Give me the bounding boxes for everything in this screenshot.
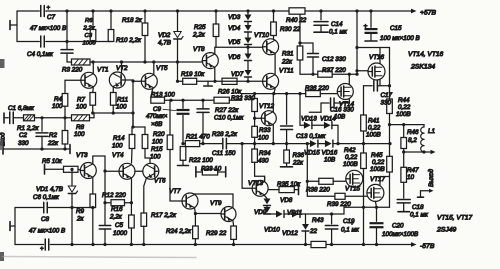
label VD9: [254, 209, 267, 216]
svg-text:+57В: +57В: [420, 10, 437, 17]
label VT1: [97, 67, 109, 74]
svg-text:×6В: ×6В: [151, 121, 162, 128]
diode VD7: [245, 61, 252, 82]
svg-text:R33: R33: [259, 127, 271, 134]
capacitor C14: [314, 11, 328, 32]
transistor VT17 mosfet: [367, 184, 384, 201]
wire VT12 collector: [272, 94, 274, 112]
label C15: [380, 25, 420, 42]
label R27: [215, 107, 239, 114]
svg-text:R19 10к: R19 10к: [181, 71, 205, 78]
label VD11: [287, 210, 302, 217]
label C1: [8, 105, 35, 112]
label VT4: [112, 152, 124, 159]
resistor R35: [268, 185, 298, 195]
label R34: [258, 150, 271, 165]
capacitor C20 electrolytic: [370, 207, 384, 244]
label R13: [151, 92, 175, 99]
svg-text:0,22: 0,22: [345, 154, 358, 161]
svg-text:VD9: VD9: [254, 209, 267, 216]
capacitor C1: [10, 112, 14, 124]
label R9: [76, 208, 85, 223]
svg-text:VD4: VD4: [228, 25, 241, 32]
edge artifact bottom smudge: [2, 257, 196, 258]
label C20 polarity: [350, 220, 354, 227]
svg-text:100: 100: [150, 154, 161, 161]
svg-text:C18: C18: [412, 204, 424, 211]
svg-text:VD7: VD7: [231, 71, 244, 78]
capacitor C6 cap: [44, 202, 48, 213]
svg-text:VT1: VT1: [97, 67, 109, 74]
label R41: [366, 118, 381, 139]
svg-text:C15: C15: [390, 25, 402, 32]
wire y74 to VT16 column: [332, 73, 358, 76]
wire VT17 source: [375, 201, 378, 209]
svg-text:R31: R31: [282, 51, 294, 58]
wire VT10-VT11 link: [274, 54, 276, 74]
svg-text:C7: C7: [47, 14, 56, 21]
svg-text:0,1 мк: 0,1 мк: [341, 227, 360, 234]
svg-text:R20: R20: [153, 131, 165, 138]
svg-text:R45: R45: [371, 152, 383, 159]
svg-text:100В: 100В: [370, 166, 385, 173]
svg-text:C10 0,1мк: C10 0,1мк: [214, 115, 244, 122]
resistor R26: [222, 78, 237, 84]
resistor R9: [90, 194, 96, 245]
terminal output lower: [418, 189, 434, 197]
capacitor C8: [45, 239, 49, 250]
resistor R13: [151, 97, 165, 103]
svg-text:22: 22: [309, 228, 318, 235]
transistor VT8: [202, 53, 218, 69]
svg-text:R27 22к: R27 22к: [215, 107, 239, 114]
wire VT-collector bus y62: [90, 60, 202, 63]
svg-text:VT15, VT17: VT15, VT17: [437, 215, 473, 222]
resistor R23: [196, 167, 226, 177]
wire VT2 collector: [121, 62, 123, 73]
svg-text:470мк×: 470мк×: [146, 113, 168, 120]
wire R41 to bus: [363, 131, 365, 153]
terminal input left: [4, 113, 8, 123]
label R37: [322, 67, 346, 74]
svg-text:C16 330: C16 330: [330, 107, 354, 114]
svg-text:C11 150: C11 150: [212, 150, 236, 157]
svg-text:C2: C2: [19, 132, 28, 139]
label output Vyhod: [429, 168, 435, 187]
wire input node: [35, 116, 72, 119]
resistor R42: [361, 153, 367, 169]
resistor R15: [142, 127, 150, 163]
svg-text:+: +: [40, 247, 44, 253]
label C6: [33, 194, 60, 201]
resistor R47: [401, 150, 407, 182]
wire VT14 drain: [348, 74, 350, 84]
resistor R6: [90, 11, 96, 42]
terminal input top-left: [10, 21, 17, 30]
wire base bridge VT4-VT6: [135, 170, 143, 172]
svg-text:C20: C20: [392, 223, 404, 230]
label VT16: [369, 54, 385, 61]
transistor VT16 mosfet: [368, 63, 385, 80]
diode VD11: [292, 211, 306, 218]
svg-text:VD3: VD3: [228, 14, 241, 21]
label R10: [116, 37, 142, 44]
resistor R44: [387, 99, 393, 114]
svg-text:VT15: VT15: [345, 186, 361, 193]
transistor VT3: [80, 163, 96, 179]
svg-text:R18 2к: R18 2к: [122, 17, 143, 24]
svg-text:R11: R11: [117, 97, 128, 104]
resistor R17: [141, 213, 147, 245]
svg-text:+: +: [350, 220, 354, 227]
label R7: [76, 97, 87, 111]
diode VD1 zener: [68, 169, 77, 244]
wire VT10 collector: [273, 36, 275, 40]
wire y213 base: [195, 213, 221, 215]
wire R27 to R32: [229, 92, 305, 100]
svg-text:R8: R8: [76, 124, 85, 131]
svg-text:R21 470: R21 470: [186, 134, 210, 141]
wire VT7 emitter: [194, 208, 197, 215]
diode VD12: [302, 214, 309, 245]
svg-text:100 мк×100 В: 100 мк×100 В: [380, 35, 420, 42]
label C14: [329, 21, 348, 36]
resistor R39: [307, 193, 367, 199]
label R40: [286, 17, 307, 24]
svg-text:R36 220: R36 220: [305, 85, 329, 92]
svg-text:R7: R7: [77, 97, 86, 104]
label L1: [428, 128, 435, 135]
wire x389 column lower: [364, 172, 390, 207]
wire R14 R15 feeds: [131, 113, 145, 129]
label VT6: [154, 178, 166, 185]
label C17: [381, 92, 393, 107]
svg-text:VT5: VT5: [156, 65, 168, 72]
terminal bar right end y149: [69, 145, 71, 154]
wire output bus left: [181, 142, 204, 145]
svg-text:VD12: VD12: [282, 230, 298, 237]
label VD6: [228, 54, 241, 61]
label VT7: [169, 188, 181, 195]
label R18: [122, 17, 143, 24]
label C5: [113, 222, 128, 237]
svg-text:C12 330: C12 330: [322, 56, 346, 63]
transistor VT12: [253, 111, 276, 126]
label R43: [309, 217, 324, 235]
inductor L1: [421, 125, 424, 152]
label VD14: [320, 116, 336, 123]
label C2: [18, 132, 29, 147]
svg-text:0,22: 0,22: [368, 125, 381, 132]
resistor R43: [311, 241, 326, 247]
svg-text:VT16: VT16: [369, 54, 385, 61]
svg-text:R32 330: R32 330: [231, 95, 255, 102]
svg-text:100: 100: [76, 104, 87, 111]
transistor VT5: [133, 73, 157, 89]
capacitor C15 electrolytic: [365, 11, 378, 41]
label VT14: [339, 101, 355, 108]
capacitor C18: [397, 182, 410, 211]
resistor R45: [387, 156, 393, 172]
svg-text:Выход: Выход: [429, 168, 435, 187]
diode VD6: [245, 47, 252, 60]
label VT11: [279, 68, 294, 75]
svg-text:C8: C8: [41, 216, 50, 223]
label C19: [341, 218, 360, 234]
svg-text:8,2: 8,2: [408, 137, 417, 144]
wire VT16 gate box: [357, 48, 390, 71]
capacitor C3: [61, 42, 73, 63]
wire VT8 collector: [214, 47, 216, 53]
svg-text:R25: R25: [194, 24, 206, 31]
capacitor C9 electrolytic: [177, 100, 190, 143]
svg-text:22к: 22к: [292, 160, 304, 167]
diode VD10: [276, 211, 292, 218]
wire VT8 emitter: [214, 68, 216, 82]
svg-text:100: 100: [116, 104, 127, 111]
wire VT6 emitter: [144, 178, 147, 213]
svg-text:R6: R6: [85, 18, 93, 24]
label R4: [52, 96, 63, 110]
label R36 22k: [292, 152, 305, 167]
wire x357 column: [355, 11, 358, 74]
label R32: [231, 95, 255, 102]
resistor R7: [90, 88, 96, 113]
capacitor C2: [36, 118, 48, 149]
svg-text:R41: R41: [368, 118, 380, 125]
svg-text:+: +: [364, 23, 368, 30]
svg-text:VT10: VT10: [254, 32, 270, 39]
wire -57V bottom rail: [15, 242, 417, 247]
wire ground bus y149: [3, 147, 70, 150]
wire output bus mid: [241, 142, 310, 145]
label R11: [116, 97, 128, 111]
svg-text:VT4: VT4: [112, 152, 124, 159]
label R6: [83, 18, 95, 32]
wire +57V top rail: [17, 9, 417, 14]
svg-text:R14: R14: [113, 135, 125, 142]
svg-text:100: 100: [258, 135, 269, 142]
label VT2: [116, 65, 128, 72]
resistor R34: [252, 137, 258, 162]
wire VT3 emitter: [92, 178, 94, 194]
svg-text:100мк×100В: 100мк×100В: [382, 231, 418, 238]
svg-text:100В: 100В: [343, 161, 358, 168]
label input Vhod: [1, 132, 7, 146]
svg-text:R4: R4: [54, 96, 63, 103]
label R25: [192, 24, 206, 39]
svg-text:0,22: 0,22: [398, 104, 411, 111]
wire VT4 base: [105, 170, 119, 172]
label R31: [281, 51, 294, 66]
label VT3: [76, 152, 88, 159]
svg-text:R42: R42: [344, 147, 356, 154]
label R26: [218, 89, 242, 96]
diode VD5: [245, 32, 252, 47]
resistor R24: [193, 214, 199, 245]
wire y124 output top: [390, 123, 425, 126]
label R1: [17, 125, 40, 132]
svg-text:2,2к: 2,2к: [192, 32, 206, 39]
svg-text:100: 100: [152, 139, 163, 146]
svg-text:C5: C5: [115, 222, 124, 229]
svg-text:C4 0,1мк: C4 0,1мк: [27, 51, 54, 58]
wire VT5 emitter: [151, 89, 153, 97]
terminal left mid: [2, 144, 4, 154]
label R36b: [305, 85, 329, 92]
label VT17: [370, 176, 386, 183]
wire y81 bus: [197, 80, 263, 83]
wire y100 bus: [165, 99, 215, 102]
capacitor C13: [281, 94, 293, 144]
svg-text:L1: L1: [428, 128, 435, 135]
svg-text:R3 220: R3 220: [62, 67, 83, 74]
terminal stub below R19: [204, 81, 212, 86]
label C11: [212, 150, 236, 157]
wire VT11 emitter: [274, 89, 275, 94]
label R35: [277, 181, 301, 188]
svg-text:0,22: 0,22: [372, 159, 385, 166]
svg-text:C13 0,1мк: C13 0,1мк: [296, 133, 326, 140]
svg-text:VT3: VT3: [76, 152, 88, 159]
label VD1: [36, 186, 63, 193]
label C13: [296, 133, 326, 140]
resistor R36 22k: [281, 144, 293, 167]
svg-text:R36: R36: [293, 152, 305, 159]
node top rail junctions: [65, 9, 372, 12]
label VD8: [280, 197, 293, 204]
svg-text:R16: R16: [111, 206, 123, 213]
svg-text:VT13: VT13: [248, 180, 264, 187]
label R23: [201, 166, 222, 173]
label R5: [42, 158, 63, 165]
wire y214 to C19: [306, 207, 364, 215]
wire output arrow: [404, 150, 436, 154]
label C9: [146, 106, 176, 128]
label R19: [181, 71, 205, 78]
label VD7: [231, 71, 244, 78]
svg-text:330: 330: [18, 140, 29, 147]
svg-text:VD2: VD2: [158, 32, 171, 39]
resistor R38: [307, 178, 346, 184]
label R3: [62, 67, 83, 74]
resistor R33: [252, 112, 258, 138]
wire VT13 emitter: [265, 196, 267, 199]
label R24: [166, 228, 192, 235]
diode VD4: [245, 22, 252, 33]
svg-text:1000: 1000: [113, 230, 128, 237]
wire x389 column upper: [389, 48, 391, 100]
resistor R41: [361, 86, 367, 131]
wire y47 bus: [216, 46, 263, 49]
svg-text:430: 430: [258, 158, 269, 165]
label VD3: [228, 14, 241, 21]
capacitor C5: [99, 225, 111, 229]
capacitor C16: [309, 98, 349, 112]
svg-text:C3: C3: [85, 33, 93, 39]
label VD16: [322, 150, 338, 164]
label R28: [212, 131, 238, 138]
label R21: [186, 134, 210, 141]
label R38: [306, 187, 330, 194]
edge artifact left1: [0, 59, 5, 68]
svg-text:R44: R44: [398, 97, 410, 104]
capacitor C11: [223, 138, 242, 149]
label R29: [206, 230, 227, 237]
label R33: [258, 127, 271, 142]
wire x363 column lower: [362, 169, 365, 245]
svg-text:47 мк×100 В: 47 мк×100 В: [30, 25, 66, 32]
svg-text:10В: 10В: [334, 114, 345, 121]
transistor VT15 mosfet: [346, 170, 363, 187]
svg-text:VT14, VT16: VT14, VT16: [408, 51, 444, 58]
label R16: [109, 206, 123, 221]
svg-text:330: 330: [381, 100, 392, 107]
wire base column x133: [131, 79, 134, 127]
label VT15: [345, 186, 361, 193]
transistor VT10: [263, 39, 279, 55]
resistor R36b: [306, 91, 338, 97]
label C7 polarity: [47, 6, 51, 12]
svg-text:10В: 10В: [324, 157, 335, 164]
label VT9: [210, 200, 222, 207]
transistor VT9: [221, 207, 236, 222]
label R12: [102, 192, 126, 199]
resistor R16: [129, 201, 135, 244]
wire x105 column: [103, 156, 106, 245]
svg-text:22к: 22к: [281, 59, 293, 66]
node bottom rail junctions: [70, 243, 378, 246]
svg-text:R40 22: R40 22: [286, 17, 307, 24]
label VD13: [301, 116, 317, 123]
label VT5: [156, 65, 168, 72]
svg-text:10: 10: [407, 174, 415, 181]
svg-text:R35 10к: R35 10к: [277, 181, 301, 188]
svg-text:4,7В: 4,7В: [158, 40, 171, 47]
svg-text:VD5: VD5: [228, 39, 241, 46]
label R47: [407, 167, 419, 181]
label R17: [151, 212, 177, 219]
svg-text:0,1 мк: 0,1 мк: [410, 212, 429, 219]
resistor R31: [297, 15, 303, 75]
transistor VT6: [143, 163, 159, 179]
capacitor C19: [325, 214, 338, 245]
resistor R10: [108, 11, 114, 42]
wire VT16 source: [379, 80, 381, 86]
capacitor C17: [364, 80, 392, 91]
label VD10: [264, 227, 280, 234]
label C3: [83, 33, 97, 47]
wire R8 to emitters: [90, 111, 134, 117]
svg-text:22к: 22к: [47, 140, 59, 147]
svg-text:VD15: VD15: [304, 150, 320, 157]
label C10: [214, 115, 244, 122]
svg-text:100: 100: [74, 131, 85, 138]
label R46: [407, 129, 419, 144]
svg-text:2SK134: 2SK134: [410, 64, 435, 71]
resistor R4: [62, 80, 68, 118]
label C12: [322, 56, 346, 63]
label R45: [370, 152, 385, 173]
wire VT13 base column: [242, 144, 252, 189]
wire VT13 collector: [264, 176, 266, 181]
svg-text:2к: 2к: [76, 216, 85, 223]
svg-text:R2: R2: [49, 132, 58, 139]
diode VD14: [324, 122, 338, 144]
svg-text:R38 220: R38 220: [306, 187, 330, 194]
label C20: [382, 223, 418, 239]
label C15 polarity: [364, 23, 368, 30]
